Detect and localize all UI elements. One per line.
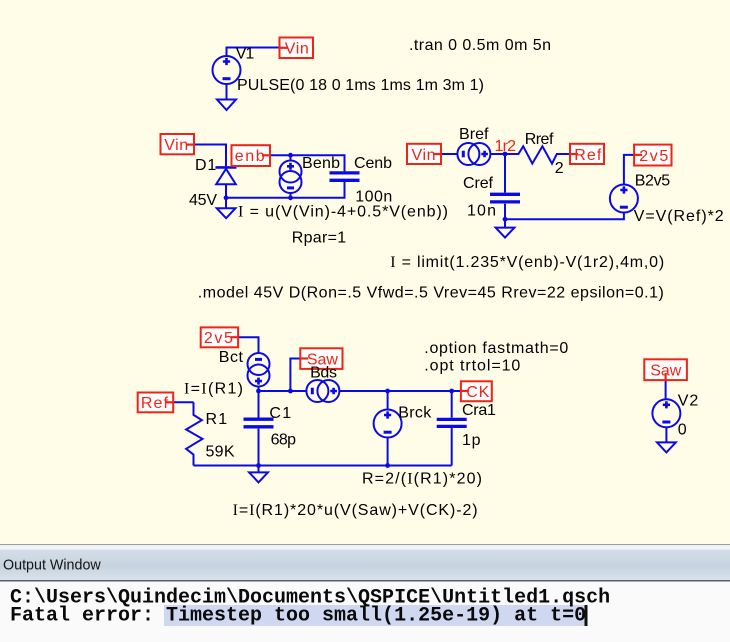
label B2v5 bbox=[635, 173, 671, 190]
svg-text:1r2: 1r2 bbox=[495, 138, 517, 155]
value 59K bbox=[206, 444, 235, 461]
svg-text:B2v5: B2v5 bbox=[635, 173, 671, 190]
wire Benb top stem bbox=[290, 155, 292, 160]
wire rail Bct to Bds bbox=[259, 390, 307, 392]
svg-text:.option fastmath=0: .option fastmath=0 bbox=[424, 340, 568, 357]
current source Benb bbox=[280, 161, 302, 194]
voltage source Brck bbox=[374, 410, 402, 438]
net label enb bbox=[232, 145, 271, 166]
net label Saw (V2) bbox=[644, 359, 687, 380]
wire Ref label to R1 bbox=[173, 401, 193, 403]
label Bds bbox=[310, 364, 337, 381]
net label CK bbox=[461, 381, 492, 401]
svg-text:V2: V2 bbox=[678, 393, 699, 410]
label Cenb bbox=[354, 155, 392, 172]
svg-text:Cref: Cref bbox=[463, 175, 494, 192]
svg-text:Rpar=1: Rpar=1 bbox=[292, 229, 347, 246]
wire V1 top to Vin label bbox=[227, 48, 284, 57]
wire 1r2 node down to Cref bbox=[504, 154, 506, 193]
voltage source B2v5 bbox=[610, 185, 638, 213]
junction Cref bottom bbox=[503, 217, 508, 222]
capacitor Cref bbox=[490, 194, 520, 202]
wire C1 bottom stem bbox=[258, 429, 260, 466]
svg-text:.tran 0 0.5m 0m 5n: .tran 0 0.5m 0m 5n bbox=[409, 37, 551, 54]
value Rpar=1 bbox=[292, 229, 347, 246]
expression I = u(V(Vin)-4+0.5*V(enb)) bbox=[238, 204, 448, 221]
current source Bds bbox=[306, 380, 339, 402]
svg-text:Brck: Brck bbox=[398, 404, 432, 421]
svg-text:enb: enb bbox=[235, 148, 265, 165]
svg-text:V1: V1 bbox=[236, 46, 255, 63]
junction Benb top bbox=[288, 153, 293, 158]
svg-text:R1: R1 bbox=[206, 411, 228, 428]
value 2 bbox=[555, 160, 564, 177]
wire Bds to CK label bbox=[339, 390, 461, 392]
wire Vin label to diode D1 bbox=[194, 145, 226, 167]
junction Brck top bbox=[385, 389, 390, 394]
svg-text:2: 2 bbox=[555, 160, 564, 177]
net label Ref (R1) bbox=[138, 393, 174, 413]
junction diode node bbox=[224, 195, 229, 200]
junction Bct bottom bbox=[256, 389, 261, 394]
svg-text:Output Window: Output Window bbox=[3, 558, 101, 574]
svg-text:Ref: Ref bbox=[141, 395, 169, 412]
wire Saw label down to rail bbox=[290, 359, 300, 392]
svg-text:I = limit(1.235*V(enb)-V(1r2),: I = limit(1.235*V(enb)-V(1r2),4m,0) bbox=[390, 254, 664, 271]
junction Brck bottom bbox=[385, 463, 390, 468]
net label Vin (Bref) bbox=[407, 144, 441, 164]
resistor R1 bbox=[186, 402, 202, 465]
svg-text:45V: 45V bbox=[189, 192, 217, 209]
wire Cra1 bottom stem bbox=[451, 428, 453, 465]
wire Brck bottom stem bbox=[387, 438, 389, 466]
current source Bref bbox=[457, 143, 490, 165]
ground under V2 bbox=[657, 427, 676, 452]
label Rref bbox=[525, 131, 554, 148]
wire bottom rail to B2v5 bbox=[505, 213, 624, 220]
expression I = limit(1.235*V(enb)-V(1r2),4m,0) bbox=[390, 254, 664, 271]
svg-text:I=I(R1)*20*u(V(Saw)+V(CK)-2): I=I(R1)*20*u(V(Saw)+V(CK)-2) bbox=[233, 502, 478, 519]
svg-text:Bref: Bref bbox=[459, 126, 489, 143]
net label Ref (Rref) bbox=[570, 144, 604, 164]
wire enb label to Cenb top bbox=[270, 155, 345, 171]
capacitor C1 bbox=[244, 419, 274, 427]
svg-text:I = u(V(Vin)-4+0.5*V(enb)): I = u(V(Vin)-4+0.5*V(enb)) bbox=[238, 204, 448, 221]
label R1 bbox=[206, 411, 228, 428]
net label 2v5 (B2v5) bbox=[634, 145, 671, 166]
svg-text:2v5: 2v5 bbox=[639, 148, 668, 165]
current source Bct bbox=[248, 353, 270, 387]
svg-text:2v5: 2v5 bbox=[204, 330, 233, 347]
value 45V bbox=[189, 192, 217, 209]
svg-text:D1: D1 bbox=[195, 157, 216, 174]
expression R=2/(I(R1)*20) bbox=[362, 471, 482, 488]
svg-text:Rref: Rref bbox=[525, 131, 554, 148]
junction node 1r2 bbox=[503, 152, 508, 157]
wire diode to bottom node bbox=[225, 184, 227, 198]
label Brck bbox=[398, 404, 432, 421]
svg-text:R=2/(I(R1)*20): R=2/(I(R1)*20) bbox=[362, 471, 482, 488]
expression V=V(Ref)*2 bbox=[634, 208, 724, 225]
directive .option fastmath=0 bbox=[424, 340, 568, 357]
wire B2v5 top to 2v5 label bbox=[624, 155, 634, 185]
svg-text:Vin: Vin bbox=[164, 137, 188, 154]
svg-text:1p: 1p bbox=[462, 432, 481, 449]
ground at diode node bbox=[217, 198, 236, 218]
svg-text:Fatal error: Timestep too smal: Fatal error: Timestep too small(1.25e-19… bbox=[10, 605, 586, 628]
wire Benb bottom stem bbox=[290, 193, 292, 198]
wire bottom rail block3 bbox=[194, 465, 452, 467]
wire 2v5 label to Bct bbox=[238, 337, 258, 353]
svg-text:10n: 10n bbox=[467, 202, 496, 219]
net label Saw (Bds) bbox=[300, 348, 342, 369]
wire C1 top stem bbox=[258, 391, 260, 418]
OUTPUT WINDOW bbox=[0, 544, 730, 642]
svg-text:Vin: Vin bbox=[285, 40, 309, 57]
value PULSE(0 18 0 1ms 1ms 1m 3m 1) bbox=[237, 77, 484, 94]
svg-text:Cenb: Cenb bbox=[354, 155, 392, 172]
NETLABELS bbox=[138, 38, 687, 413]
value 68p bbox=[271, 431, 296, 448]
diode D1 bbox=[216, 167, 237, 184]
expression I=I(R1) bbox=[184, 380, 243, 397]
label V2 bbox=[678, 393, 699, 410]
svg-text:Vin: Vin bbox=[412, 147, 436, 164]
label C1 bbox=[269, 405, 291, 422]
value 10n bbox=[467, 202, 496, 219]
ground under V1 bbox=[217, 84, 236, 110]
ground at C1 node bbox=[249, 466, 268, 483]
junction Cra1 top bbox=[449, 389, 454, 394]
svg-text:Bds: Bds bbox=[310, 364, 337, 381]
label Bref bbox=[459, 126, 489, 143]
voltage source V1 bbox=[213, 56, 241, 84]
junction Benb bottom bbox=[288, 195, 293, 200]
svg-text:Cra1: Cra1 bbox=[462, 402, 496, 419]
svg-text:.opt trtol=10: .opt trtol=10 bbox=[424, 358, 520, 375]
svg-text:.model 45V D(Ron=.5 Vfwd=.5 Vr: .model 45V D(Ron=.5 Vfwd=.5 Vrev=45 Rrev… bbox=[198, 285, 664, 302]
junction dots bbox=[224, 152, 508, 468]
wire and resistor Rref bbox=[490, 146, 570, 163]
value 100n bbox=[355, 189, 392, 206]
svg-text:PULSE(0 18 0 1ms 1ms 1m 3m 1): PULSE(0 18 0 1ms 1ms 1m 3m 1) bbox=[237, 77, 484, 94]
capacitor Cenb bbox=[330, 173, 360, 180]
junction Saw wire bbox=[288, 389, 293, 394]
svg-text:C1: C1 bbox=[269, 405, 291, 422]
wire Cref bottom stem bbox=[504, 204, 506, 219]
wire Brck top stem bbox=[387, 391, 389, 410]
svg-text:Benb: Benb bbox=[302, 155, 340, 172]
capacitor Cra1 bbox=[437, 419, 467, 426]
directive .tran 0 0.5m 0m 5n bbox=[409, 37, 551, 54]
junction C1 bottom bbox=[256, 463, 261, 468]
svg-text:CK: CK bbox=[466, 384, 489, 401]
expression I=I(R1)*20*u(V(Saw)+V(CK)-2) bbox=[233, 502, 478, 519]
svg-text:V=V(Ref)*2: V=V(Ref)*2 bbox=[634, 208, 724, 225]
wire Saw label to V2 bbox=[665, 381, 667, 400]
wire bottom rail to Cenb bbox=[226, 182, 345, 198]
svg-text:Saw: Saw bbox=[650, 363, 681, 380]
net label Vin (V1) bbox=[280, 38, 314, 59]
svg-text:Bct: Bct bbox=[219, 349, 244, 366]
label Cref bbox=[463, 175, 494, 192]
wire Vin label to Bref bbox=[441, 153, 457, 155]
directive .model 45V D(...) bbox=[198, 285, 664, 302]
ground at Cref node bbox=[496, 219, 515, 237]
svg-text:59K: 59K bbox=[206, 444, 235, 461]
value 0 bbox=[678, 422, 687, 439]
svg-text:68p: 68p bbox=[271, 431, 296, 448]
wire Bct bottom stem bbox=[258, 387, 260, 391]
label D1 bbox=[195, 157, 216, 174]
svg-text:Ref: Ref bbox=[574, 147, 602, 164]
voltage source V2 bbox=[652, 399, 680, 427]
svg-text:0: 0 bbox=[678, 422, 687, 439]
label Bct bbox=[219, 349, 244, 366]
net label 2v5 (Bct) bbox=[201, 327, 238, 347]
label V1 bbox=[236, 46, 255, 63]
node name 1r2 bbox=[495, 138, 517, 155]
label Cra1 bbox=[462, 402, 496, 419]
value 1p bbox=[462, 432, 481, 449]
wire Cra1 top stem bbox=[451, 391, 453, 418]
label Benb bbox=[302, 155, 340, 172]
directive .opt trtol=10 bbox=[424, 358, 520, 375]
net label Vin (D1) bbox=[161, 134, 195, 154]
